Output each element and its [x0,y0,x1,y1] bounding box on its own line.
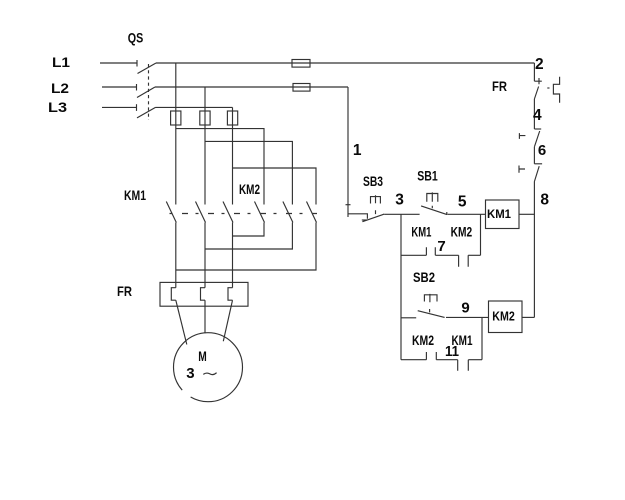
branch2 wire right [468,359,482,361]
wire L1 incoming [100,62,137,64]
wire KM1 out B [204,223,206,288]
SB1 blade [421,206,447,215]
contact KM2 blade 3 [307,202,317,223]
terminal tick QS pole1 [136,60,138,67]
svg-text:FR: FR [117,283,132,299]
svg-text:5: 5 [458,193,467,210]
switch QS blade pole2 [137,87,155,98]
SB3 blade tick [362,219,367,221]
wire 4 to 6 [533,147,535,164]
wire KM2 coil to line 8 [522,316,534,318]
wire phase B vertical [204,87,206,205]
wire phase C vertical [232,107,234,204]
terminal tick QS pole2 [136,84,138,91]
switch QS blade pole1 [138,63,157,74]
motor M circle [174,333,243,402]
wire phase A vertical [175,63,177,205]
wire KM2 out 3 [176,223,316,271]
FR NC terminal cross [534,78,541,84]
motor lead middle [204,300,206,333]
wire line 8 vertical [533,182,535,318]
contact KM1 blade 3 [223,202,233,223]
svg-text:M: M [198,348,207,364]
fuse FU3 [171,111,181,125]
branch1 vertical to node5 [480,214,482,255]
FR trip symbol [553,77,559,103]
svg-text:KM1: KM1 [124,187,146,203]
FR link dash [547,87,549,89]
FR NC blade [534,87,538,100]
contact KM2 blade 1 [255,202,265,223]
SB2 blade [418,311,445,318]
wire KM1 coil to node 8 [519,213,534,215]
branch1 wire right [468,254,480,256]
svg-text:1: 1 [353,142,362,159]
QS linkage dashed line [148,64,150,120]
svg-text:KM2: KM2 [492,310,515,324]
KM1 coil box [486,200,520,229]
svg-text:KM1: KM1 [452,333,473,348]
wire line 1 vertical [347,87,349,217]
NC contact b stop mark [519,166,525,173]
fuse FU5 [227,111,237,125]
svg-text:SB1: SB1 [417,168,438,184]
svg-text:KM2: KM2 [239,181,260,197]
KM2 NO contact ticks [426,352,436,360]
fuse FU2 [293,84,310,92]
branch1 wire mid [435,254,458,256]
svg-text:KM1: KM1 [487,207,511,221]
fuse FU1 [292,60,310,68]
wire SB2 to KM2 coil [446,316,489,318]
contact KM1 blade 1 [166,202,176,223]
svg-text:SB2: SB2 [413,269,435,285]
svg-text:L2: L2 [51,80,69,96]
NC contact a blade [534,131,539,147]
contact KM1 blade 2 [196,202,206,223]
wire L3 incoming [102,106,137,108]
wire branch A to KM2 [176,129,264,205]
NC contact b blade [534,166,539,181]
linkage dash-dot line [166,213,317,215]
SB1 blade tick [446,212,448,215]
wire branch B to KM2 [205,141,292,204]
svg-text:9: 9 [461,299,469,316]
KM1 NC contact ticks [458,360,469,371]
svg-text:3: 3 [395,192,404,209]
SB3 left terminal [348,214,367,219]
motor lead left [176,300,187,344]
NC contact a terminal tick [534,128,541,130]
svg-text:QS: QS [128,30,144,46]
svg-text:3: 3 [186,365,194,382]
KM2 NC contact ticks [459,255,469,266]
KM2 coil box [489,301,523,333]
SB3 plunger [371,195,381,214]
wire KM1 out C [232,223,234,288]
NC contact b terminal tick [534,163,542,165]
wire node3 branch vertical [400,214,402,359]
wire branch C to KM2 [233,168,317,205]
wire SB3 to SB1 [384,213,419,215]
svg-text:8: 8 [540,192,549,209]
wire KM1 out A [175,223,177,288]
wire L2 to node 1 [155,86,348,88]
wire KM2 out 1 [233,223,265,237]
svg-text:KM2: KM2 [451,225,473,240]
wire node2 vertical [533,63,535,81]
NC contact a stop mark [519,133,525,139]
svg-text:KM1: KM1 [411,225,431,240]
tick on line 1 [346,204,351,206]
FR heater element C [228,288,233,301]
SB2 plunger [424,294,437,313]
svg-text:KM2: KM2 [412,333,434,348]
terminal tick QS pole3 [136,104,138,111]
svg-text:SB3: SB3 [363,173,383,189]
FR heater element A [171,288,176,301]
fuse FU4 [200,111,210,125]
thermal relay FR box [160,282,248,306]
svg-text:6: 6 [538,142,546,159]
svg-text:L3: L3 [48,99,67,115]
branch2 wire mid [436,359,457,361]
SB1 plunger [427,192,438,208]
motor tilde [203,373,216,375]
switch QS blade pole3 [137,107,156,118]
wire L1 to node 2 [156,62,534,64]
svg-text:4: 4 [533,107,542,124]
wire 2 to 4 [533,99,535,129]
FR heater element B [201,288,206,301]
wire L3 [156,106,233,108]
wire SB1 to KM1 coil [448,213,486,215]
contact KM2 blade 2 [283,202,293,223]
motor lead right [223,300,232,341]
svg-text:L1: L1 [52,54,70,70]
wire L2 incoming [102,86,137,88]
wire KM2 out 2 [205,223,292,250]
SB2 wire left [401,317,416,319]
branch2 vertical to line 9 [481,318,483,360]
SB3 blade [362,214,384,222]
branch1 wire left [401,254,426,256]
svg-text:7: 7 [437,238,445,255]
svg-text:2: 2 [535,56,544,73]
KM1 NO contact ticks [426,247,435,255]
branch2 wire left [401,359,426,361]
svg-text:FR: FR [492,78,507,94]
